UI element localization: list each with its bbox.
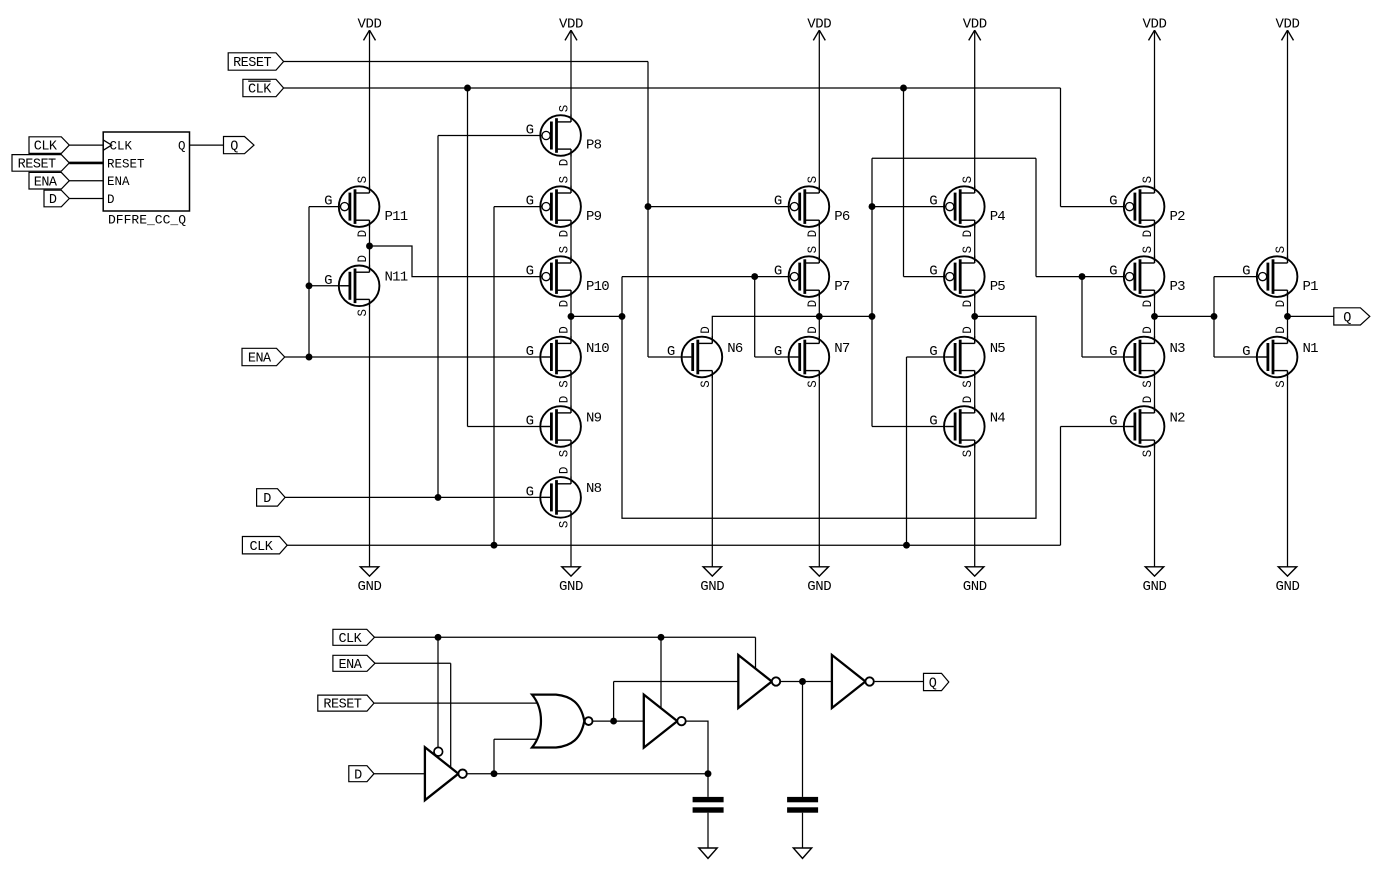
svg-text:D: D — [558, 326, 572, 334]
svg-text:S: S — [558, 176, 572, 184]
svg-text:D: D — [961, 230, 975, 238]
svg-text:GND: GND — [357, 579, 381, 595]
input port flag ENA — [29, 172, 69, 189]
wire slave node top routing y=158 — [872, 157, 1036, 159]
svg-text:D: D — [1141, 230, 1155, 238]
svg-text:D: D — [354, 768, 362, 783]
svg-text:VDD: VDD — [807, 16, 831, 32]
transistor N7 (NMOS) — [774, 326, 850, 388]
transistor N10 (NMOS) — [526, 326, 610, 388]
svg-text:VDD: VDD — [559, 16, 583, 32]
junction master node — [619, 313, 626, 320]
svg-text:N7: N7 — [834, 341, 850, 357]
svg-text:Q: Q — [178, 140, 186, 154]
transistor N5 (NMOS) — [929, 326, 1005, 388]
wire master node up-feed to P7/N7 gates — [621, 277, 623, 317]
input port flag D — [44, 190, 69, 207]
junction NOR out / bypass — [610, 718, 617, 725]
svg-text:N2: N2 — [1170, 410, 1186, 426]
junction CLK/inv B enable — [658, 634, 665, 641]
junction CLKB/N9 — [464, 85, 471, 92]
svg-text:Q: Q — [1343, 311, 1351, 326]
svg-text:P10: P10 — [586, 279, 609, 295]
svg-text:G: G — [929, 194, 937, 210]
wire RESET to P6 gate — [648, 206, 791, 208]
svg-text:D: D — [356, 255, 370, 263]
svg-text:N8: N8 — [586, 481, 602, 497]
ground below capacitor C2 — [793, 848, 811, 858]
transistor N6 (NMOS) — [667, 326, 743, 388]
wire VDD rail column 6 — [1154, 30, 1156, 193]
input port flag RESET — [318, 695, 374, 711]
junction A out / B out / C1 cap — [705, 770, 712, 777]
transistor P1 (PMOS) — [1242, 246, 1318, 308]
wire CLKB down to N9 gate — [467, 88, 469, 427]
wire N11 drain — [369, 246, 371, 272]
svg-text:S: S — [806, 246, 820, 254]
svg-text:G: G — [1109, 344, 1117, 360]
wire to P11 gate — [309, 206, 341, 208]
wire VDD rail column 2 — [570, 30, 572, 122]
junction P7 gate / N7 gate feed — [751, 273, 758, 280]
junction slave/P4 gate — [869, 203, 876, 210]
svg-text:VDD: VDD — [963, 16, 987, 32]
junction slave node at x=872 — [869, 313, 876, 320]
svg-text:P9: P9 — [586, 209, 602, 225]
svg-text:D: D — [961, 396, 975, 404]
transistor P7 (PMOS) — [774, 246, 850, 308]
transistor N3 (NMOS) — [1109, 326, 1185, 388]
NOR output bubble — [585, 717, 593, 725]
svg-text:P4: P4 — [990, 209, 1006, 225]
junction ENA line/vertical — [306, 354, 313, 361]
svg-text:N10: N10 — [586, 341, 609, 357]
wire N2 source to GND — [1154, 440, 1156, 567]
capacitor C1 — [707, 774, 709, 797]
GND power symbol — [562, 567, 580, 576]
svg-text:D: D — [1141, 300, 1155, 308]
wire N6 drain up and right to slave node — [712, 316, 819, 343]
input port flag CLK — [333, 629, 375, 645]
svg-text:D: D — [107, 193, 115, 207]
svg-text:S: S — [806, 380, 820, 388]
junction RESET/P6 gate — [645, 203, 652, 210]
transistor N1 (NMOS) — [1242, 326, 1318, 388]
svg-text:G: G — [1109, 414, 1117, 430]
svg-text:CLK: CLK — [34, 140, 58, 155]
wire CLKB down to P5 gate — [903, 88, 905, 277]
GND power symbol — [810, 567, 828, 576]
svg-text:G: G — [1242, 344, 1250, 360]
wire D up to P8 gate — [437, 136, 439, 498]
wire bypass NOR out to inverter C input — [613, 682, 615, 722]
svg-text:G: G — [1109, 264, 1117, 280]
inverter D (output) — [832, 655, 866, 708]
svg-text:P5: P5 — [990, 279, 1006, 295]
wire CLK net horizontal (bottom of top section) — [287, 544, 1060, 546]
svg-text:G: G — [324, 194, 332, 210]
wire D to inverter A input — [374, 773, 425, 775]
wire up to NOR lower input — [493, 739, 495, 774]
inverter C — [738, 655, 772, 708]
wire CLKB net horizontal — [284, 87, 1061, 89]
svg-text:N6: N6 — [727, 341, 743, 357]
junction A out / NOR feed — [491, 770, 498, 777]
transistor N9 (NMOS) — [526, 396, 602, 458]
input port flag ENA — [333, 655, 375, 671]
input port flag CLK — [29, 137, 69, 154]
svg-text:S: S — [1274, 380, 1288, 388]
junction P3/N3 gate feed — [1079, 273, 1086, 280]
wire CLK up to N2 gate — [1060, 427, 1062, 546]
wire VDD rail column 7 — [1287, 30, 1289, 263]
GND power symbol — [1145, 567, 1163, 576]
svg-text:P7: P7 — [834, 279, 850, 295]
input port flag RESET — [228, 53, 283, 70]
wire NOR output to inverter B — [593, 720, 644, 722]
svg-text:G: G — [667, 344, 675, 360]
svg-text:P2: P2 — [1170, 209, 1186, 225]
svg-text:G: G — [526, 264, 534, 280]
svg-text:P3: P3 — [1170, 279, 1186, 295]
wire CLK up to N5 gate — [906, 357, 908, 545]
svg-text:S: S — [961, 450, 975, 458]
svg-text:D: D — [961, 326, 975, 334]
svg-text:VDD: VDD — [357, 16, 381, 32]
svg-text:ENA: ENA — [34, 175, 58, 190]
input port flag D — [349, 766, 374, 782]
svg-text:D: D — [1274, 300, 1288, 308]
svg-text:ENA: ENA — [339, 658, 363, 673]
inverter A (tristate, D input) — [425, 747, 459, 800]
svg-text:D: D — [806, 230, 820, 238]
svg-text:S: S — [558, 380, 572, 388]
wire P8-P9 — [570, 149, 572, 193]
svg-text:P1: P1 — [1303, 279, 1319, 295]
wire P7 drain to slave junction — [818, 290, 820, 316]
svg-text:D: D — [961, 300, 975, 308]
junction P3/N3 drains — [1151, 313, 1158, 320]
wire VDD rail column 4 — [818, 30, 820, 193]
svg-text:D: D — [699, 326, 713, 334]
svg-text:G: G — [774, 194, 782, 210]
svg-text:G: G — [929, 344, 937, 360]
wire P4-P5 — [974, 220, 976, 263]
wire N8 source to GND — [570, 511, 572, 567]
svg-text:DFFRE_CC_Q: DFFRE_CC_Q — [108, 213, 186, 228]
output port flag Q — [924, 673, 949, 690]
wire P2-P3 — [1154, 220, 1156, 263]
svg-text:D: D — [558, 467, 572, 475]
svg-text:CLK: CLK — [110, 140, 133, 154]
svg-text:ENA: ENA — [248, 352, 272, 367]
wire N10-N9 — [570, 371, 572, 413]
wire P3 drain to output junction — [1154, 290, 1156, 316]
wire ENA to inverter A enable — [375, 662, 451, 664]
svg-text:CLK: CLK — [338, 632, 362, 647]
wire ENA flag to block — [69, 180, 103, 182]
transistor P5 (PMOS) — [929, 246, 1005, 308]
GND power symbol — [360, 567, 378, 576]
svg-text:D: D — [263, 492, 271, 507]
clock input triangle on block CLK pin — [103, 140, 111, 150]
svg-text:S: S — [1141, 380, 1155, 388]
svg-text:D: D — [806, 300, 820, 308]
svg-text:RESET: RESET — [233, 56, 271, 71]
svg-text:RESET: RESET — [18, 158, 56, 173]
svg-text:Q: Q — [929, 677, 937, 692]
svg-text:GND: GND — [559, 579, 583, 595]
svg-text:G: G — [526, 123, 534, 139]
svg-text:G: G — [526, 484, 534, 500]
wire output junction to N3 drain — [1154, 316, 1156, 343]
transistor P10 (PMOS) — [526, 246, 610, 308]
input port flag D — [257, 489, 286, 506]
svg-text:D: D — [806, 326, 820, 334]
svg-text:D: D — [1274, 326, 1288, 334]
transistor P3 (PMOS) — [1109, 246, 1185, 308]
svg-text:N11: N11 — [385, 270, 408, 286]
wire N11 source to GND — [369, 299, 371, 566]
svg-text:S: S — [558, 521, 572, 529]
junction CLK/N5 vertical — [903, 542, 910, 549]
svg-text:G: G — [324, 273, 332, 289]
transistor N8 (NMOS) — [526, 467, 602, 529]
wire inverter B output to latch node — [686, 721, 708, 774]
wire P1 drain to Q junction — [1287, 290, 1289, 316]
svg-text:D: D — [49, 193, 57, 208]
transistor P6 (PMOS) — [774, 176, 850, 238]
transistor P11 (PMOS) — [324, 176, 408, 238]
wire P11 drain to junction — [369, 220, 371, 246]
svg-text:S: S — [558, 105, 572, 113]
GND power symbol — [1278, 567, 1296, 576]
svg-text:S: S — [1141, 450, 1155, 458]
svg-text:G: G — [526, 414, 534, 430]
wire master node routing to slave pass-gate drains — [622, 316, 1036, 518]
svg-text:S: S — [1274, 246, 1288, 254]
svg-text:G: G — [526, 344, 534, 360]
svg-text:G: G — [929, 414, 937, 430]
input port flag ENA — [242, 348, 285, 365]
svg-text:GND: GND — [1142, 579, 1166, 595]
svg-text:S: S — [356, 176, 370, 184]
component block U1 DFFRE_CC_Q — [103, 132, 189, 211]
junction P11/N11 drains — [366, 243, 373, 250]
wire CLK up to P9 gate — [493, 207, 495, 546]
svg-text:G: G — [774, 344, 782, 360]
wire P5 drain to pass junction — [974, 290, 976, 316]
junction P10/N10 drains — [568, 313, 575, 320]
wire P10 drain to master junction — [570, 290, 572, 316]
wire CLK line bottom section — [375, 636, 756, 638]
wire slave node to N4 gate — [872, 426, 954, 428]
svg-text:P6: P6 — [834, 209, 850, 225]
wire inverter A output line — [467, 773, 708, 775]
svg-text:VDD: VDD — [1275, 16, 1299, 32]
wire VDD rail column 5 — [974, 30, 976, 193]
svg-text:G: G — [1242, 264, 1250, 280]
wire RESET net horizontal — [284, 61, 648, 63]
svg-text:RESET: RESET — [107, 157, 145, 171]
svg-text:S: S — [356, 309, 370, 317]
transistor P4 (PMOS) — [929, 176, 1005, 238]
junction CLKB/P5 — [900, 85, 907, 92]
svg-text:Q: Q — [230, 140, 238, 155]
svg-text:N3: N3 — [1170, 341, 1186, 357]
wire RESET flag to block (thick) — [69, 162, 103, 165]
wire ENA net horizontal to N10 gate — [285, 356, 550, 358]
ground below capacitor C1 — [699, 848, 717, 858]
svg-text:S: S — [1141, 246, 1155, 254]
wire P3/N3 drains to P1/N1 gate feed — [1155, 315, 1215, 317]
svg-text:D: D — [558, 396, 572, 404]
svg-text:S: S — [961, 380, 975, 388]
wire VDD rail column 1 — [369, 30, 371, 193]
output port flag Q — [1334, 308, 1370, 325]
svg-text:G: G — [1109, 194, 1117, 210]
wire D net horizontal to N8 gate — [285, 496, 550, 498]
svg-text:N5: N5 — [990, 341, 1006, 357]
wire slave junction to N7 drain — [818, 316, 820, 343]
wire N6 source to GND — [711, 371, 713, 567]
wire Q junction to N1 drain — [1287, 316, 1289, 343]
inverter B (tristate feedback) — [644, 695, 678, 748]
junction slave node at column 4 rail — [816, 313, 823, 320]
junction CLK/P9 vertical — [491, 542, 498, 549]
wire block Q output to Q flag — [190, 144, 224, 146]
svg-text:VDD: VDD — [1142, 16, 1166, 32]
svg-text:GND: GND — [807, 579, 831, 595]
svg-text:D: D — [558, 300, 572, 308]
wire inverter C output to D — [781, 681, 832, 683]
junction P1/N1 drains (Q) — [1284, 313, 1291, 320]
svg-text:D: D — [356, 230, 370, 238]
svg-text:CLK: CLK — [248, 83, 272, 98]
wire CLK down to inverter B enable — [660, 637, 662, 708]
wire CLK flag to block — [69, 144, 103, 146]
GND power symbol — [703, 567, 721, 576]
wire RESET net vertical to P6/N6 gates — [647, 62, 649, 358]
input port flag RESET — [12, 155, 69, 172]
wire slave node vertical x=872 — [871, 158, 873, 426]
wire CLKB down to P2 gate — [1060, 88, 1062, 207]
junction D line/P8 vertical — [435, 494, 442, 501]
svg-text:G: G — [774, 264, 782, 280]
svg-text:S: S — [961, 246, 975, 254]
wire pass junction to N5 drain — [974, 316, 976, 343]
svg-text:S: S — [1141, 176, 1155, 184]
wire ENA up to P11/N11 gates — [308, 207, 310, 357]
junction P5/N5 drains — [971, 313, 978, 320]
svg-text:N1: N1 — [1303, 341, 1319, 357]
wire N7 source to GND — [818, 371, 820, 567]
svg-text:CLK: CLK — [250, 540, 274, 555]
svg-text:D: D — [558, 230, 572, 238]
svg-text:RESET: RESET — [323, 698, 361, 713]
input port flag CLK — [243, 79, 284, 96]
wire D flag to block — [69, 198, 103, 200]
wire RESET to NOR input — [374, 702, 542, 704]
NOR gate U-RST — [532, 695, 584, 748]
wire CLK down to inverter A enable bubble — [437, 637, 439, 747]
svg-text:GND: GND — [700, 579, 724, 595]
wire N4 source to GND — [974, 440, 976, 567]
wire master node horizontal — [571, 315, 622, 317]
inverter A enable bubble — [434, 747, 443, 756]
wire master junction to N10 drain — [570, 316, 572, 343]
wire inverter D output to Q flag — [875, 681, 924, 683]
junction ENA vertical/N11 gate — [306, 282, 313, 289]
wire slave node to P4 gate — [872, 206, 946, 208]
wire to N11 gate — [309, 285, 349, 287]
junction P1/N1 gate feed — [1211, 313, 1218, 320]
svg-text:D: D — [558, 159, 572, 167]
wire Q output to flag — [1288, 315, 1334, 317]
capacitor C2 — [802, 682, 804, 797]
wire slave node down to P3/N3 gates — [1035, 158, 1037, 276]
svg-text:D: D — [1141, 396, 1155, 404]
input port flag CLK — [242, 537, 287, 554]
transistor N4 (NMOS) — [929, 396, 1005, 458]
transistor P2 (PMOS) — [1109, 176, 1185, 238]
svg-text:GND: GND — [963, 579, 987, 595]
svg-text:N9: N9 — [586, 410, 602, 426]
junction CLK/inv A enable — [435, 634, 442, 641]
svg-text:G: G — [526, 194, 534, 210]
svg-text:S: S — [699, 380, 713, 388]
GND power symbol — [966, 567, 984, 576]
svg-text:G: G — [929, 264, 937, 280]
transistor N2 (NMOS) — [1109, 396, 1185, 458]
svg-text:N4: N4 — [990, 410, 1006, 426]
output port flag Q — [224, 137, 255, 154]
svg-text:GND: GND — [1275, 579, 1299, 595]
transistor N11 (NMOS) — [324, 255, 408, 317]
svg-text:S: S — [558, 450, 572, 458]
wire feedback jog from P11/N11 drains to P10 gate — [370, 246, 543, 277]
svg-text:D: D — [1141, 326, 1155, 334]
transistor P8 (PMOS) — [526, 105, 602, 167]
svg-text:S: S — [961, 176, 975, 184]
wire N5-N4 — [974, 371, 976, 413]
wire P6-P7 — [818, 220, 820, 263]
wire CLK down to inverter C enable — [755, 637, 757, 668]
svg-text:S: S — [558, 246, 572, 254]
wire N1 source to GND — [1287, 371, 1289, 567]
transistor P9 (PMOS) — [526, 176, 602, 238]
svg-text:ENA: ENA — [107, 175, 130, 189]
svg-text:P8: P8 — [586, 138, 602, 154]
wire P9-P10 — [570, 220, 572, 263]
wire RESET to N6 gate — [648, 356, 691, 358]
wire N9-N8 — [570, 440, 572, 484]
wire N3-N2 — [1154, 371, 1156, 413]
svg-text:S: S — [806, 176, 820, 184]
junction C out / cap C2 — [799, 678, 806, 685]
svg-text:P11: P11 — [385, 209, 408, 225]
